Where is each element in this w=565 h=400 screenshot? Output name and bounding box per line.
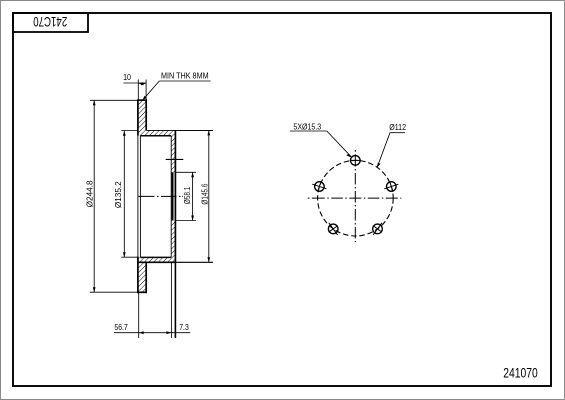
svg-text:Ø58.1: Ø58.1 <box>182 187 192 204</box>
svg-text:Ø244.8: Ø244.8 <box>85 180 94 207</box>
svg-text:241070: 241070 <box>503 365 538 381</box>
svg-text:Ø145.6: Ø145.6 <box>199 184 209 205</box>
svg-text:10: 10 <box>123 73 131 83</box>
svg-text:5XØ15.3: 5XØ15.3 <box>293 122 321 132</box>
svg-text:Ø135.2: Ø135.2 <box>114 181 123 208</box>
svg-text:241C70: 241C70 <box>33 14 67 29</box>
svg-text:56.7: 56.7 <box>114 322 127 332</box>
svg-text:7.3: 7.3 <box>179 322 189 332</box>
svg-text:MIN THK 8MM: MIN THK 8MM <box>161 71 209 81</box>
svg-text:Ø112: Ø112 <box>389 122 406 132</box>
